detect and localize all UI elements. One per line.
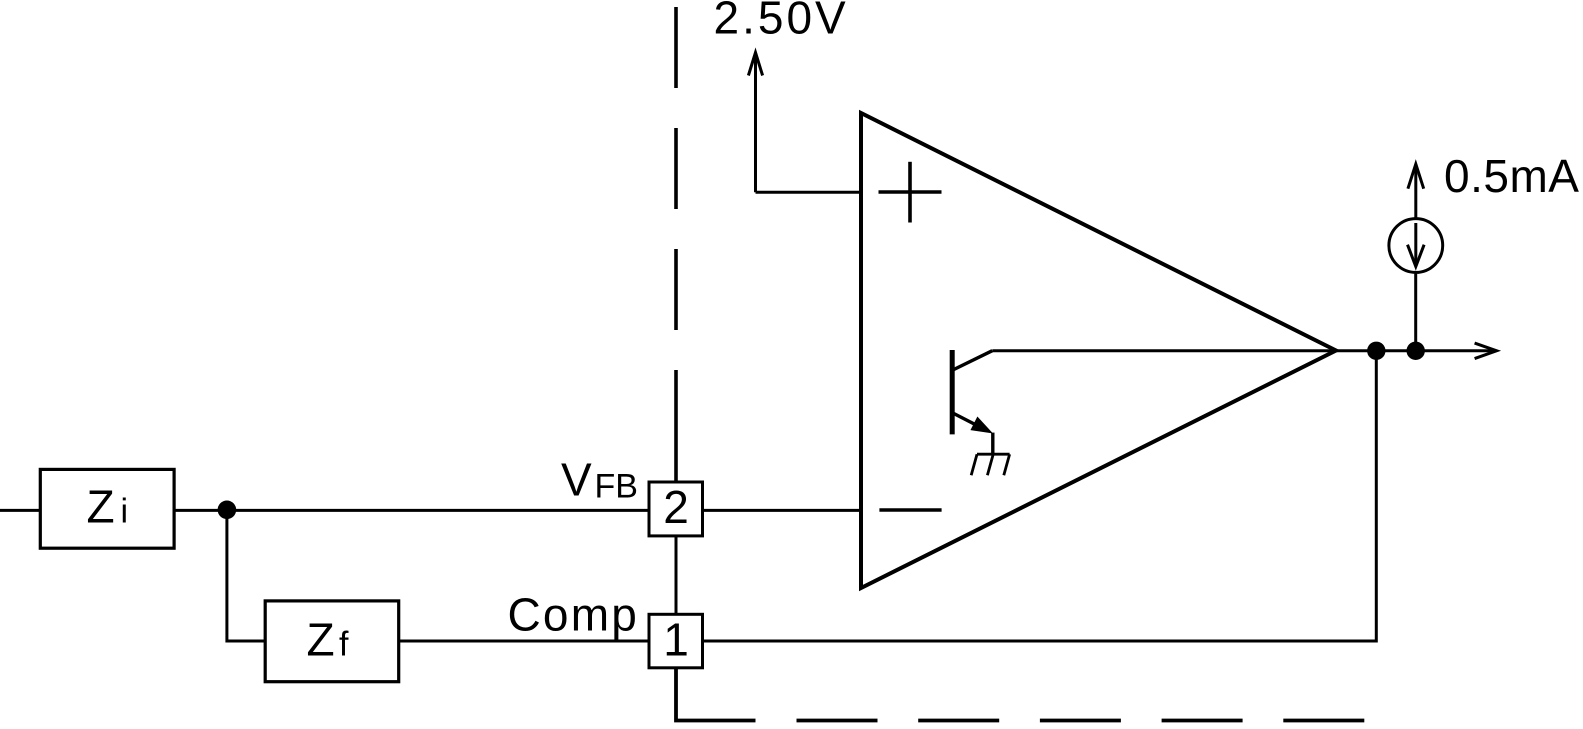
op-amp + input symbol: [879, 162, 942, 223]
wire pin 2 to - input: [703, 509, 862, 512]
wire collector to output: [992, 349, 1494, 352]
wire 2.50V to + input: [756, 191, 862, 194]
impedance Zf: [265, 601, 399, 682]
wire current source to output node: [1414, 273, 1417, 351]
svg-text:i: i: [121, 492, 129, 530]
svg-text:Z: Z: [307, 613, 335, 665]
transistor Q1: [952, 350, 993, 454]
svg-text:0.5mA: 0.5mA: [1444, 150, 1579, 202]
wire node A down to Zf: [227, 510, 265, 641]
IC boundary dashed line bottom: [797, 719, 1365, 723]
node dot output: [1367, 342, 1385, 360]
label VFB: [561, 454, 638, 506]
wire pin 2 to pin 1: [675, 536, 678, 614]
current source top arrow: [1408, 164, 1424, 218]
ground: [971, 454, 1009, 475]
pin 1: [649, 613, 703, 668]
wire input stub left: [0, 509, 40, 512]
node dot current source: [1407, 342, 1425, 360]
wire Zi to pin 2: [174, 509, 649, 512]
wire Zf to pin 1: [399, 640, 649, 643]
current source I1: [1389, 219, 1443, 273]
output arrow: [1475, 343, 1497, 359]
impedance Zi: [40, 469, 174, 548]
wire feedback output to Comp pin: [703, 351, 1377, 641]
svg-text:Z: Z: [87, 480, 115, 532]
svg-text:V: V: [561, 454, 592, 506]
2.50V supply arrow: [748, 53, 762, 193]
svg-text:1: 1: [663, 613, 689, 665]
pin 2: [649, 481, 703, 536]
node A junction dot: [218, 501, 237, 520]
op-amp U1: [861, 113, 1336, 588]
svg-text:2.50V: 2.50V: [714, 0, 849, 44]
svg-text:f: f: [339, 625, 349, 663]
svg-text:Comp: Comp: [508, 588, 640, 640]
IC boundary dashed line top: [674, 7, 678, 330]
op-amp - input symbol: [879, 508, 941, 512]
wire pin 1 down to boundary corner: [676, 668, 756, 721]
svg-text:2: 2: [663, 481, 689, 533]
svg-text:FB: FB: [595, 468, 638, 506]
wire pin 2 top lead: [674, 370, 678, 482]
